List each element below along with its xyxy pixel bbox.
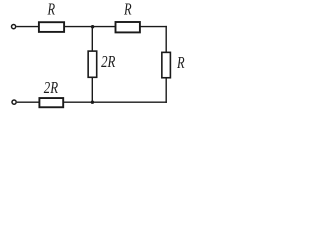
svg-text:R: R	[176, 53, 184, 72]
wire R5 through node B to bottom-right corner	[63, 101, 167, 103]
svg-text:2R: 2R	[101, 52, 115, 71]
terminal T2 (bottom-left input)	[12, 100, 16, 104]
svg-text:R: R	[47, 0, 55, 19]
resistor R4 (right vertical, value R)	[162, 52, 171, 77]
node B (bottom junction dot)	[91, 101, 94, 104]
resistor R1 (top-left, value R)	[39, 22, 64, 32]
wire R1 to node A and on to R2	[64, 26, 115, 28]
wire R4 down to bottom-right corner	[165, 78, 167, 103]
terminal T1 (top-left input)	[12, 25, 16, 29]
svg-text:R: R	[123, 0, 131, 19]
wire R2 to top-right corner	[140, 26, 167, 28]
wire R3 to node B	[91, 77, 93, 102]
wire T1 to R1	[16, 26, 39, 28]
svg-text:2R: 2R	[44, 78, 58, 97]
resistor R5 (bottom, value 2R)	[39, 98, 63, 107]
resistor R2 (top-right, value R)	[116, 22, 140, 32]
node A (top junction dot)	[91, 25, 94, 28]
wire top-right corner down to R4	[165, 26, 167, 52]
resistor R3 (middle vertical, value 2R)	[88, 51, 97, 77]
wire T2 to R5	[17, 101, 40, 103]
wire node A down to R3	[91, 27, 93, 51]
